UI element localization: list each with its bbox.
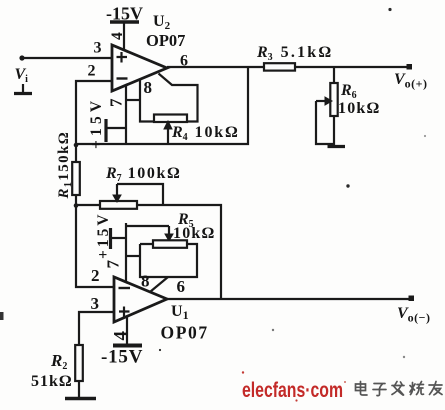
- svg-text:7: 7: [104, 260, 123, 269]
- svg-text:3: 3: [91, 294, 100, 313]
- svg-text:-15V: -15V: [106, 4, 143, 24]
- svg-text:R410kΩ: R410kΩ: [171, 124, 240, 143]
- svg-text:10kΩ: 10kΩ: [338, 100, 381, 117]
- svg-text:Vo(−): Vo(−): [397, 305, 431, 325]
- svg-text:8: 8: [141, 272, 150, 291]
- svg-text:+15V: +15V: [88, 97, 105, 149]
- svg-text:OP07: OP07: [161, 323, 209, 343]
- svg-text:R1150kΩ: R1150kΩ: [56, 131, 74, 200]
- svg-text:Vo(+): Vo(+): [394, 71, 428, 91]
- svg-text:4: 4: [109, 32, 126, 40]
- svg-text:7: 7: [107, 98, 126, 107]
- svg-text:Vi: Vi: [15, 66, 29, 85]
- svg-text:elecfans·com: elecfans·com: [242, 378, 343, 402]
- svg-text:R2: R2: [50, 351, 67, 372]
- svg-text:6: 6: [177, 277, 186, 296]
- svg-text:R35.1kΩ: R35.1kΩ: [256, 44, 333, 63]
- svg-text:-15V: -15V: [101, 347, 143, 368]
- svg-text:2: 2: [91, 266, 100, 285]
- svg-text:R7100kΩ: R7100kΩ: [105, 165, 181, 184]
- svg-text:51kΩ: 51kΩ: [31, 373, 73, 390]
- svg-text:4: 4: [111, 331, 132, 341]
- svg-text:6: 6: [180, 53, 188, 70]
- svg-text:+15V: +15V: [95, 211, 112, 259]
- svg-text:OP07: OP07: [146, 31, 185, 50]
- svg-text:U1: U1: [171, 303, 189, 322]
- svg-text:10kΩ: 10kΩ: [173, 225, 216, 242]
- svg-text:8: 8: [144, 78, 153, 97]
- svg-text:3: 3: [94, 40, 102, 57]
- svg-text:U2: U2: [153, 13, 171, 32]
- svg-text:R6: R6: [340, 82, 357, 101]
- svg-text:2: 2: [88, 63, 96, 80]
